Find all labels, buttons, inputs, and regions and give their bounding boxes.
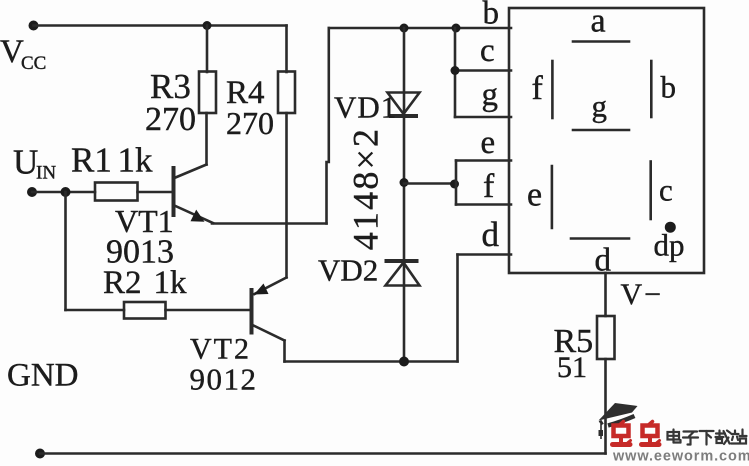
wire ef drop — [455, 161, 458, 205]
svg-text:U: U — [13, 143, 38, 182]
wire R1 to VT1 base — [138, 191, 172, 194]
transistor VT2 emitter arrow — [254, 284, 269, 295]
resistor R2 — [124, 302, 166, 319]
watermark logo graduation cap — [599, 403, 638, 439]
svg-text:R1: R1 — [71, 141, 112, 180]
segment a — [573, 40, 629, 43]
svg-text:d: d — [595, 243, 612, 279]
diode VD2 — [386, 263, 420, 286]
wire R4 top lead — [285, 26, 288, 73]
wire pin f — [456, 203, 511, 206]
wire pin d — [458, 253, 512, 256]
junction VD2/collector — [399, 357, 409, 367]
svg-text:www.eeworm.com: www.eeworm.com — [612, 449, 749, 462]
transistor VT1 emitter — [176, 206, 214, 223]
segment dp — [665, 222, 676, 233]
segment d — [571, 237, 629, 240]
svg-text:1k: 1k — [118, 141, 154, 180]
segment f — [551, 61, 554, 118]
wire display bottom lead — [604, 273, 607, 316]
wire VT2 collector lead — [283, 341, 286, 362]
svg-text:b: b — [483, 0, 500, 32]
watermark chongchong char2 — [642, 422, 660, 445]
wire VCC rail — [34, 24, 287, 27]
wire R4 bottom lead — [285, 113, 288, 278]
junction UIN/R2 — [61, 187, 71, 197]
transistor VT1 collector — [176, 165, 207, 178]
svg-text:e: e — [527, 177, 542, 214]
wire d drop — [456, 255, 459, 362]
svg-text:f: f — [532, 70, 544, 107]
wire pin g — [455, 116, 511, 119]
segment b — [650, 61, 653, 117]
transistor VT1 base bar — [172, 166, 176, 217]
svg-text:VD1: VD1 — [334, 90, 397, 125]
segment g — [573, 129, 629, 132]
wire R3 bottom lead — [205, 113, 208, 165]
transistor VT1 emitter arrow — [191, 210, 205, 222]
wire pin e — [456, 159, 511, 162]
wire R5 bottom lead — [604, 359, 607, 454]
wire R2 to VT2 base — [166, 309, 251, 312]
wire right riser — [327, 28, 329, 224]
svg-text:d: d — [482, 215, 500, 254]
junction b/c branch — [452, 24, 461, 33]
junction VD1/VD2 — [400, 178, 409, 187]
transistor VT2 base bar — [250, 288, 254, 335]
wire VD mid link — [404, 182, 456, 185]
wire bcg drop — [454, 28, 457, 117]
resistor R3 — [199, 72, 216, 114]
wire left drop — [64, 192, 67, 310]
transistor VT2 collector — [254, 326, 285, 341]
resistor R1 — [95, 183, 138, 201]
svg-text:4148×2: 4148×2 — [346, 127, 386, 251]
segment e — [551, 166, 554, 228]
junction VD1 anode — [400, 24, 409, 33]
resistor R5 — [597, 316, 615, 359]
svg-text:c: c — [659, 173, 673, 208]
svg-text:b: b — [661, 70, 677, 105]
wire R3 top lead — [206, 26, 209, 73]
junction VCC/R3 — [203, 21, 212, 30]
svg-text:g: g — [482, 77, 499, 113]
display block outline — [509, 8, 704, 273]
svg-text:270: 270 — [226, 105, 274, 141]
transistor VT2 emitter — [255, 278, 287, 295]
watermark text dianzi xiazaizhan — [668, 430, 747, 445]
node VCC terminal — [29, 21, 39, 31]
svg-text:c: c — [480, 33, 495, 69]
wire ground rail — [40, 452, 606, 455]
svg-text:dp: dp — [654, 228, 685, 263]
svg-text:9012: 9012 — [190, 362, 258, 397]
wire UIN lead — [32, 191, 95, 194]
node UIN terminal — [27, 187, 37, 197]
wire pin c — [455, 69, 511, 72]
svg-text:IN: IN — [36, 163, 56, 184]
watermark chongchong char1 — [613, 422, 631, 445]
svg-text:51: 51 — [557, 351, 587, 384]
resistor R4 — [278, 72, 295, 114]
segment c — [649, 162, 652, 220]
svg-text:270: 270 — [145, 101, 196, 138]
wire R2 left lead — [66, 309, 125, 312]
svg-text:CC: CC — [21, 53, 46, 74]
wire top rail b — [329, 27, 511, 30]
svg-text:VD2: VD2 — [318, 253, 378, 288]
svg-text:1k: 1k — [154, 265, 188, 301]
svg-text:a: a — [591, 3, 606, 40]
svg-text:g: g — [592, 89, 608, 124]
node GND terminal — [35, 449, 45, 459]
svg-text:f: f — [483, 168, 495, 205]
junction e/f branch — [450, 180, 459, 189]
svg-text:GND: GND — [7, 358, 79, 394]
svg-text:R2: R2 — [103, 265, 142, 301]
diode VD1 — [388, 93, 420, 115]
svg-text:e: e — [481, 125, 496, 161]
wire collector rail — [285, 360, 458, 363]
junction c branch — [451, 66, 460, 75]
wire VD chain — [403, 28, 406, 362]
svg-text:V−: V− — [621, 278, 664, 311]
wire VT1 emitter rail — [212, 222, 327, 225]
